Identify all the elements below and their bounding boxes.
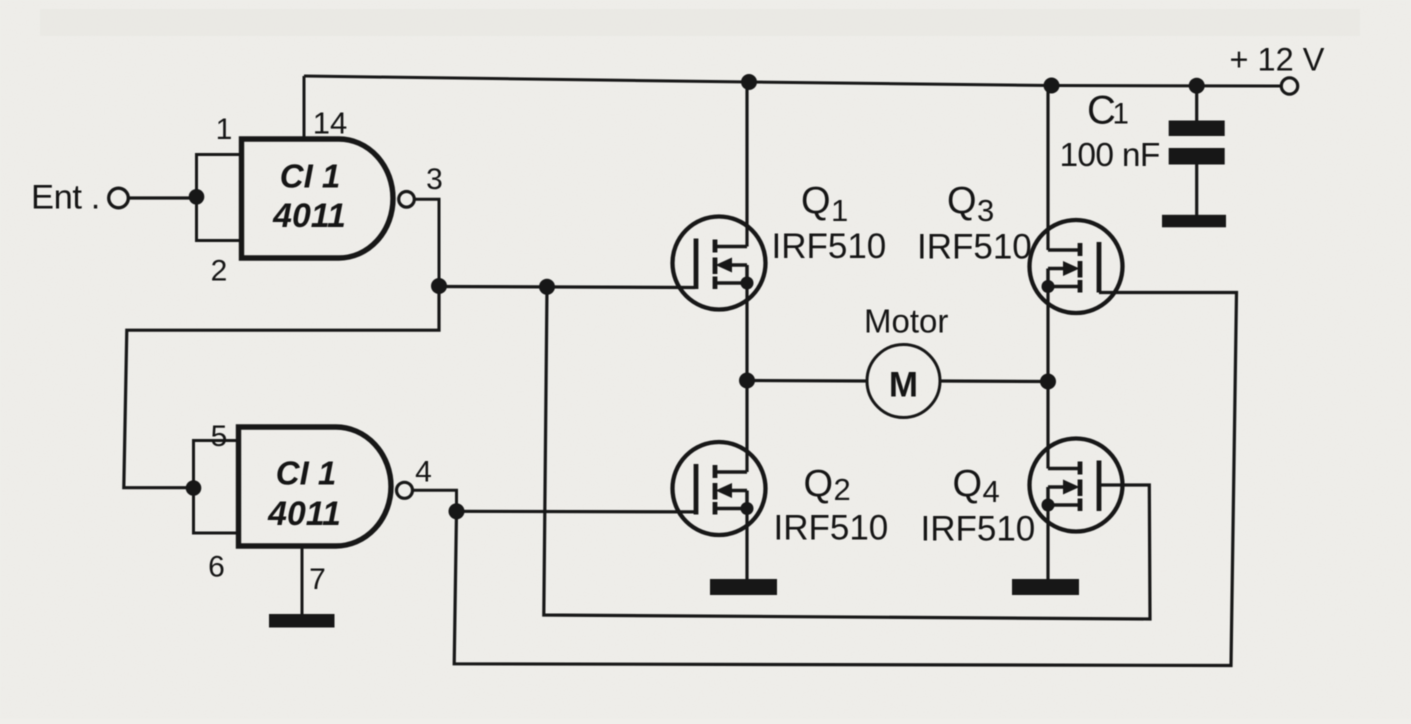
svg-text:4: 4: [983, 474, 1000, 509]
svg-text:IRF510: IRF510: [772, 227, 887, 266]
junction: rail / C1: [1189, 78, 1205, 94]
junction: motor right node: [1040, 374, 1056, 390]
capacitor C1: [1169, 121, 1225, 165]
label Q4: [953, 463, 1000, 509]
transistor Q1 IRF510: [673, 217, 766, 310]
wire: +12V supply rail: [304, 76, 1281, 86]
svg-text:+ 12 V: + 12 V: [1230, 42, 1325, 78]
svg-text:1: 1: [831, 193, 848, 228]
output bubble pin 4: [397, 482, 413, 498]
svg-text:CI 1: CI 1: [280, 158, 341, 195]
transistor Q3 IRF510: [1030, 220, 1123, 313]
junction: pin3 net branch: [539, 279, 555, 295]
svg-text:1: 1: [1113, 97, 1129, 130]
wire: input bracket (pins 5-6 tied): [194, 441, 239, 534]
ground: gate 2 pin 7: [269, 614, 335, 628]
wire: Q3 source to Q4 drain: [1046, 287, 1049, 469]
svg-text:2: 2: [834, 472, 851, 507]
junction: rail / Q1 drain: [741, 74, 757, 90]
label Q3: [947, 180, 994, 228]
wire: Q2 source to ground: [745, 509, 748, 581]
ground: Q4 source: [1012, 579, 1079, 595]
wire: motor left lead: [747, 379, 867, 383]
svg-text:5: 5: [211, 420, 228, 453]
wire: rail to Q1 drain: [745, 82, 748, 247]
wire: pin 14 stub to rail: [303, 76, 306, 140]
wire: feedback pin3 to gate2 inputs: [124, 286, 439, 488]
svg-text:4011: 4011: [272, 197, 346, 235]
svg-text:4: 4: [415, 456, 432, 489]
motor M: [867, 345, 940, 418]
svg-text:Motor: Motor: [864, 303, 948, 340]
svg-text:6: 6: [208, 551, 225, 584]
label C1: [1087, 89, 1129, 133]
output bubble pin 3: [399, 192, 415, 208]
NAND gate CI1 (pins 1,2,3,14): [242, 139, 394, 258]
svg-text:2: 2: [211, 255, 228, 288]
svg-text:4011: 4011: [267, 495, 341, 533]
terminal: Ent: [109, 188, 129, 208]
svg-text:Q: Q: [947, 180, 977, 222]
svg-text:7: 7: [309, 563, 326, 596]
junction: rail / Q3 drain: [1044, 78, 1060, 94]
junction: node pin4 net: [449, 503, 465, 519]
junction: motor left node: [739, 373, 755, 389]
label Q1: [801, 180, 848, 228]
wire: pin 7 stub: [301, 546, 304, 615]
wire: rail to Q3 drain: [1046, 86, 1049, 251]
wire: pin4 net down-across to Q3 gate: [454, 293, 1236, 666]
label Q2: [804, 463, 851, 507]
ground: Q2 source: [710, 579, 777, 595]
svg-text:CI 1: CI 1: [276, 455, 337, 492]
svg-text:Q: Q: [953, 463, 983, 505]
transistor Q4 IRF510: [1030, 439, 1123, 532]
svg-text:Q: Q: [801, 180, 831, 222]
wire: rail to C1: [1195, 86, 1198, 121]
wire: Ent input: [129, 196, 197, 199]
transistor Q2 IRF510: [673, 442, 766, 535]
junction: gate 2 input node: [186, 480, 202, 496]
wire: motor right lead: [940, 379, 1048, 383]
wire: Q1 source to Q2 drain: [745, 283, 748, 472]
svg-text:IRF510: IRF510: [921, 510, 1036, 549]
svg-text:Q: Q: [804, 463, 834, 505]
svg-text:Ent .: Ent .: [31, 178, 100, 216]
svg-text:IRF510: IRF510: [774, 509, 889, 548]
ground: C1: [1162, 215, 1226, 228]
svg-text:1: 1: [216, 113, 233, 146]
wire: pin4 output to node: [413, 490, 457, 511]
NAND gate CI1 (pins 5,6,4,7): [239, 427, 392, 546]
wire: pin4 net to Q2 gate: [457, 510, 696, 514]
wire: C1 to ground: [1195, 164, 1198, 216]
wire: pin3 net down-across to Q4 gate: [544, 287, 1150, 619]
junction: node pin3 net: [431, 278, 447, 294]
svg-text:14: 14: [313, 106, 347, 141]
wire: pin3 output to node: [414, 199, 439, 286]
wire: input bracket (pins 1-2 tied): [197, 155, 242, 241]
junction: input node: [189, 189, 205, 205]
svg-text:3: 3: [426, 163, 443, 196]
wire: Q4 source to ground: [1046, 505, 1049, 580]
svg-text:100 nF: 100 nF: [1060, 137, 1160, 174]
svg-text:3: 3: [977, 193, 994, 228]
svg-text:M: M: [889, 366, 918, 405]
wire: pin3 net to Q1 gate: [439, 287, 695, 288]
terminal: +12V input: [1281, 78, 1297, 94]
svg-text:IRF510: IRF510: [917, 228, 1032, 267]
